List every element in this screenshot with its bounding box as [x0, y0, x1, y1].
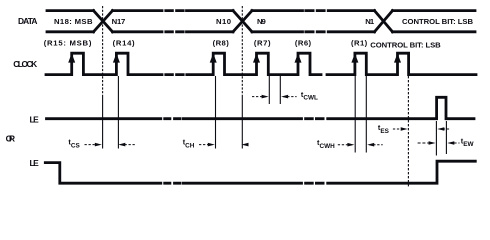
wire DATA bus bottom break2 dashes	[306, 30, 324, 33]
svg-text:N10: N10	[216, 17, 231, 26]
node data crossover X1	[94, 11, 113, 32]
annotation tick below LE pulse fall	[445, 121, 447, 154]
dimension tCWL right arrow line	[283, 96, 296, 98]
svg-text:CONTROL BIT: LSB: CONTROL BIT: LSB	[370, 40, 441, 49]
arrowhead tCWL left	[262, 95, 269, 99]
arrowhead tEW right	[447, 141, 454, 145]
svg-text:(R15: MSB): (R15: MSB)	[44, 39, 92, 48]
wire DATA bus bottom line seg1	[47, 30, 94, 33]
wire LE1 break2 dashes	[306, 117, 324, 120]
wire DATA bus top line seg2	[113, 9, 163, 12]
wire DATA bus bottom line seg6	[393, 30, 476, 33]
arrowhead tCH right	[242, 143, 249, 147]
wire DATA bus bottom line seg3	[187, 30, 234, 33]
dimension tCS right arrow line	[121, 144, 136, 146]
svg-text:N17: N17	[112, 17, 126, 26]
annotation line below clock edge P6 fall	[365, 76, 367, 153]
dimension tCH left arrow line	[199, 144, 212, 146]
annotation dashed line at data transition X1	[102, 6, 104, 96]
dimension tEW right arrow line dashed	[449, 142, 460, 144]
dimension tCWH right arrow line	[369, 144, 383, 146]
arrowhead tES left	[401, 127, 408, 131]
dimension tEW left arrow line dashed	[418, 142, 433, 144]
wire DATA bus bottom line seg4	[252, 30, 303, 33]
wire DATA bus top line seg6	[393, 9, 476, 12]
clock arrow P5	[295, 53, 302, 62]
svg-text:N9: N9	[257, 17, 266, 26]
wire DATA bus top line seg1	[47, 9, 94, 12]
wire LE1 line left	[47, 117, 161, 120]
annotation line below clock edge P2 rise	[117, 76, 119, 149]
annotation line below clock edge P6 rise	[354, 76, 356, 153]
svg-text:(R8): (R8)	[213, 39, 230, 48]
dimension tCWH left arrow line	[338, 144, 352, 146]
svg-text:CLOCK: CLOCK	[13, 59, 37, 69]
annotation line below clock edge P4 fall	[268, 76, 270, 104]
wire DATA bus top break2 dashes	[306, 9, 324, 12]
svg-text:tCH: tCH	[183, 138, 195, 150]
annotation line below clock edge P3 rise	[215, 76, 217, 149]
wire LE2 break2 dashes	[306, 182, 324, 185]
svg-text:(R7): (R7)	[254, 39, 271, 48]
dimension tES right arrow line	[439, 128, 451, 130]
svg-text:DATA: DATA	[18, 16, 37, 26]
clock arrow P3	[210, 53, 217, 62]
svg-text:tES: tES	[378, 123, 390, 135]
dimension tES left arrow line	[393, 128, 406, 130]
wire DATA bus top break1 dashes	[166, 9, 187, 12]
arrowhead tES right	[437, 127, 444, 131]
dimension tCS left arrow line	[85, 144, 100, 146]
svg-text:N18: MSB: N18: MSB	[54, 17, 93, 26]
wire DATA bus bottom line seg2	[113, 30, 163, 33]
svg-text:(R1): (R1)	[351, 39, 368, 48]
wire LE2 low right and rise to high	[328, 161, 476, 183]
svg-text:(R14): (R14)	[113, 39, 135, 48]
node data crossover X3	[375, 11, 393, 32]
clock arrow P4	[253, 53, 260, 62]
arrowhead tEW left	[429, 141, 436, 145]
dimension tCWL left arrow line	[252, 96, 267, 98]
svg-text:OR: OR	[6, 134, 15, 144]
annotation dashed line at data transition X2	[241, 6, 243, 96]
svg-text:tCWH: tCWH	[317, 138, 335, 150]
arrowhead tCWL right	[281, 95, 288, 99]
svg-text:(R6): (R6)	[295, 39, 312, 48]
svg-text:tCS: tCS	[68, 138, 80, 150]
clock arrow P7	[394, 53, 401, 62]
wire DATA bus bottom break1 dashes	[166, 30, 187, 33]
svg-text:CONTROL BIT: LSB: CONTROL BIT: LSB	[402, 17, 473, 26]
wire DATA bus top line seg4	[252, 9, 303, 12]
arrowhead tCWH right	[367, 143, 374, 147]
svg-text:LE: LE	[30, 158, 40, 168]
annotation dashed line at clock edge P7 fall	[407, 76, 409, 188]
wire CLOCK waveform right with pulses P6 P7	[327, 53, 476, 74]
annotation tick tCWL right	[279, 76, 281, 104]
clock arrow P2	[113, 53, 120, 62]
arrowhead tCWH left	[347, 143, 354, 147]
wire CLOCK break1 dashes	[166, 73, 187, 76]
wire LE2 break1 dashes	[165, 182, 181, 185]
wire LE1 line right with load pulse	[328, 97, 474, 118]
svg-text:tEW: tEW	[461, 137, 475, 149]
node data crossover X2	[233, 11, 252, 32]
wire CLOCK waveform mid with pulses P3 P4 P5	[187, 53, 321, 74]
dimension tCH right arrow line	[244, 144, 247, 146]
wire LE2 initial high and fall	[45, 163, 161, 184]
arrowhead tCH left	[208, 143, 215, 147]
clock arrow P6	[351, 53, 358, 62]
clock arrow P1	[68, 53, 75, 62]
arrowhead tCS left	[95, 143, 102, 147]
wire DATA bus top line seg5	[328, 9, 374, 12]
svg-text:tCWL: tCWL	[301, 90, 318, 102]
wire CLOCK waveform left with pulses P1 P2	[46, 53, 162, 74]
arrowhead tCS right	[118, 143, 125, 147]
svg-text:LE: LE	[30, 114, 40, 124]
wire LE1 break1 dashes	[165, 117, 181, 120]
wire LE1 line mid	[183, 117, 302, 120]
annotation tick below LE pulse rise	[435, 121, 437, 156]
svg-text:N1: N1	[365, 17, 375, 26]
wire DATA bus bottom line seg5	[328, 30, 374, 33]
wire LE2 low mid	[183, 182, 302, 185]
wire DATA bus top line seg3	[187, 9, 234, 12]
